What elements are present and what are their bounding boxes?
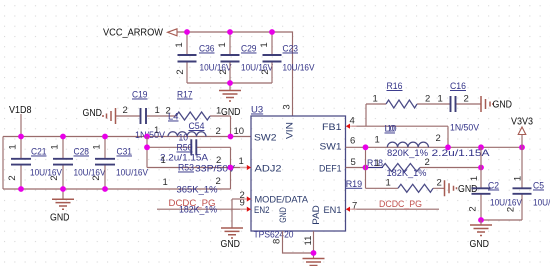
junction bottom/C31: [102, 186, 108, 192]
svg-text:1: 1: [161, 155, 166, 166]
svg-text:8: 8: [272, 239, 283, 244]
junction bus/C21: [18, 134, 24, 140]
svg-text:2: 2: [49, 175, 60, 180]
junction rail/DEF1 branch: [363, 144, 369, 150]
junction C2 bottom: [478, 217, 484, 223]
junction GND/PAD: [311, 250, 317, 256]
inductor C54 coils: [154, 121, 221, 144]
wire caps bottom: [481, 219, 522, 221]
junction caps/ground: [227, 80, 233, 86]
svg-text:2: 2: [216, 176, 221, 187]
wire MODE/DATA stub: [232, 198, 246, 200]
svg-text:4: 4: [350, 116, 355, 127]
capacitor C31: [91, 137, 149, 190]
svg-text:2: 2: [468, 206, 479, 211]
svg-text:C16: C16: [450, 81, 466, 92]
svg-text:2: 2: [437, 178, 442, 189]
svg-text:2: 2: [464, 94, 469, 105]
svg-text:2: 2: [436, 133, 441, 144]
svg-text:3: 3: [282, 104, 293, 109]
wire bottom bus: [3, 188, 231, 190]
wire SW1 to DEF1/R19 vertical: [365, 147, 367, 188]
svg-text:MODE/DATA: MODE/DATA: [255, 195, 309, 206]
junction DEF1/R19: [363, 165, 369, 171]
svg-text:1: 1: [216, 106, 221, 117]
svg-text:1: 1: [469, 176, 480, 181]
capacitor C36: [174, 32, 232, 83]
svg-text:GND: GND: [221, 239, 241, 250]
junction rail/V3V3: [519, 144, 525, 150]
wire R16 row: [366, 103, 481, 105]
capacitor C19: [123, 90, 160, 125]
ground below C2: [470, 225, 493, 250]
wire box left vertical: [146, 137, 148, 168]
svg-text:R53: R53: [178, 163, 194, 174]
wire EN1 row: [352, 208, 439, 210]
wire left edge vertical: [2, 137, 4, 190]
ground top middle: [219, 91, 241, 119]
svg-text:VIN: VIN: [285, 122, 296, 139]
wire EN2 row: [157, 208, 246, 210]
svg-text:L4: L4: [168, 112, 179, 123]
junction bus/C28: [60, 134, 66, 140]
pin arrow EN1: [346, 207, 357, 212]
svg-text:1: 1: [163, 177, 168, 188]
svg-text:10: 10: [387, 124, 397, 135]
svg-text:C21: C21: [31, 147, 47, 158]
svg-text:10U/16V: 10U/16V: [533, 198, 550, 209]
svg-text:R17: R17: [177, 90, 193, 101]
svg-text:ADJ2: ADJ2: [255, 164, 282, 175]
svg-text:FB1: FB1: [322, 122, 342, 133]
svg-text:2: 2: [216, 155, 221, 166]
svg-text:1N/50V: 1N/50V: [450, 123, 480, 134]
junction bus/C31: [102, 134, 108, 140]
svg-text:GND: GND: [470, 239, 490, 250]
svg-text:1: 1: [217, 42, 228, 47]
resistor R16: [373, 81, 431, 108]
svg-text:GND: GND: [50, 213, 70, 224]
capacitor C5: [506, 147, 550, 220]
svg-text:1: 1: [239, 156, 244, 167]
junction VCC/C36: [184, 29, 190, 35]
svg-text:GND: GND: [278, 207, 289, 223]
svg-text:10: 10: [234, 126, 245, 137]
svg-text:1: 1: [50, 144, 61, 149]
wire top caps bottom bus: [187, 82, 272, 84]
svg-text:2: 2: [91, 175, 102, 180]
pin arrow MODE/DATA: [240, 196, 251, 201]
wire SW1 output rail: [346, 146, 523, 148]
svg-text:GND: GND: [493, 100, 513, 111]
svg-text:2: 2: [218, 69, 229, 74]
svg-text:2: 2: [425, 94, 430, 105]
wire U3 PAD pin: [313, 231, 315, 259]
svg-text:365K_1%: 365K_1%: [177, 185, 219, 196]
svg-text:1: 1: [155, 105, 160, 116]
junction bus/R17 drop: [228, 134, 234, 140]
wire stem to ground left: [62, 189, 64, 199]
capacitor C23: [259, 32, 315, 83]
svg-text:2: 2: [7, 175, 18, 180]
svg-text:EN2: EN2: [254, 205, 270, 216]
svg-text:1: 1: [373, 94, 378, 105]
wire V3V3 stem: [521, 135, 523, 148]
junction ADJ2/box right: [228, 165, 234, 171]
svg-text:10U/16V: 10U/16V: [283, 63, 316, 74]
svg-text:182K_1%: 182K_1%: [387, 168, 428, 179]
capacitor C21: [7, 137, 63, 190]
ground left: [50, 199, 74, 223]
wire VCC rail top: [177, 32, 293, 116]
svg-text:2: 2: [260, 69, 271, 74]
svg-text:SW1: SW1: [320, 142, 342, 153]
svg-text:1: 1: [438, 94, 443, 105]
svg-text:1: 1: [174, 42, 185, 47]
capacitor C16: [438, 81, 469, 112]
svg-text:C5: C5: [533, 181, 544, 192]
svg-text:1: 1: [92, 144, 103, 149]
wire R19 row: [366, 187, 445, 189]
wire main bus: [3, 136, 251, 138]
wire stem to ground right: [480, 220, 482, 225]
wire box top row: [147, 146, 231, 148]
svg-text:1: 1: [375, 158, 380, 169]
svg-text:R16: R16: [387, 81, 403, 92]
capacitor C2: [468, 147, 523, 220]
svg-text:C2: C2: [488, 181, 499, 192]
svg-text:6: 6: [350, 136, 355, 147]
inductor L0 coils: [375, 133, 441, 147]
resistor R17: [166, 90, 222, 121]
wire FB1 row: [352, 126, 448, 147]
wire stem to ground: [229, 83, 231, 90]
svg-text:1: 1: [386, 178, 391, 189]
svg-text:C31: C31: [117, 147, 133, 158]
wire box right vertical: [230, 147, 232, 189]
svg-text:C28: C28: [74, 147, 90, 158]
junction FB1/rail: [445, 144, 451, 150]
svg-text:VCC_ARROW: VCC_ARROW: [103, 28, 164, 39]
svg-text:U3: U3: [251, 105, 263, 116]
svg-text:2: 2: [506, 207, 517, 212]
wire EN2 ground drop: [231, 199, 233, 228]
wire R16 branch vertical: [365, 104, 367, 126]
svg-text:2: 2: [175, 69, 186, 74]
svg-text:DEF1: DEF1: [319, 164, 342, 175]
svg-text:EN1: EN1: [324, 205, 342, 216]
junction VCC/C23: [269, 29, 275, 35]
svg-text:7: 7: [352, 201, 357, 212]
svg-text:1: 1: [8, 144, 19, 149]
resistor R19: [346, 178, 442, 193]
wire U3 GND pin: [283, 231, 314, 253]
resistor R18: [367, 157, 430, 179]
svg-text:820K_1%: 820K_1%: [387, 148, 429, 159]
ground sideways at C16: [481, 96, 512, 112]
ground below PAD: [303, 259, 325, 266]
junction DEF1/C2 branch: [478, 165, 484, 171]
svg-text:1N/50V: 1N/50V: [135, 130, 166, 141]
svg-text:11: 11: [303, 236, 314, 246]
svg-text:C54: C54: [189, 121, 205, 132]
wire DEF1 row: [346, 167, 482, 169]
capacitor C28: [49, 137, 106, 190]
wire ADJ2 row: [147, 167, 246, 169]
svg-text:V3V3: V3V3: [511, 117, 533, 128]
svg-text:C29: C29: [241, 44, 257, 55]
capacitor C29: [217, 32, 274, 83]
svg-text:2: 2: [216, 126, 221, 137]
power symbol V3V3: [518, 127, 526, 135]
svg-text:DCDC_PG: DCDC_PG: [379, 199, 422, 210]
junction VCC/C29: [227, 29, 233, 35]
svg-text:PAD: PAD: [311, 205, 322, 225]
junction box top/left: [144, 144, 150, 150]
pin arrow FB1: [346, 124, 357, 129]
op-amp U3 TPS62420 box: [251, 105, 346, 241]
capacitor C54 plates: [191, 139, 196, 155]
wire C19 row: [116, 116, 231, 137]
svg-text:R19: R19: [346, 179, 363, 190]
svg-text:2: 2: [425, 157, 430, 168]
svg-text:SW2: SW2: [254, 133, 277, 144]
svg-text:10U/16V: 10U/16V: [116, 168, 149, 179]
power symbol VCC_ARROW: [168, 29, 178, 36]
svg-text:2: 2: [123, 105, 128, 116]
svg-text:1: 1: [259, 42, 270, 47]
junction bus/box left: [144, 134, 150, 140]
junction bottom/C21: [18, 186, 24, 192]
ground sideways at R19: [445, 180, 478, 196]
junction bottom/C28: [60, 186, 66, 192]
svg-text:182K_1%: 182K_1%: [179, 205, 218, 216]
svg-text:C23: C23: [283, 44, 299, 55]
ground below EN2: [221, 228, 244, 250]
svg-text:1: 1: [513, 176, 524, 181]
svg-text:5: 5: [351, 157, 356, 168]
pin arrow EN2: [240, 207, 251, 212]
svg-text:1: 1: [375, 135, 380, 146]
junction rail/C2: [478, 144, 484, 150]
svg-text:GND: GND: [83, 108, 103, 119]
svg-text:C36: C36: [199, 44, 215, 55]
pin arrow ADJ2: [240, 165, 251, 170]
ground sideways at C19: [83, 108, 116, 124]
svg-text:C19: C19: [132, 90, 148, 101]
wire V1D8 drop: [20, 114, 22, 137]
